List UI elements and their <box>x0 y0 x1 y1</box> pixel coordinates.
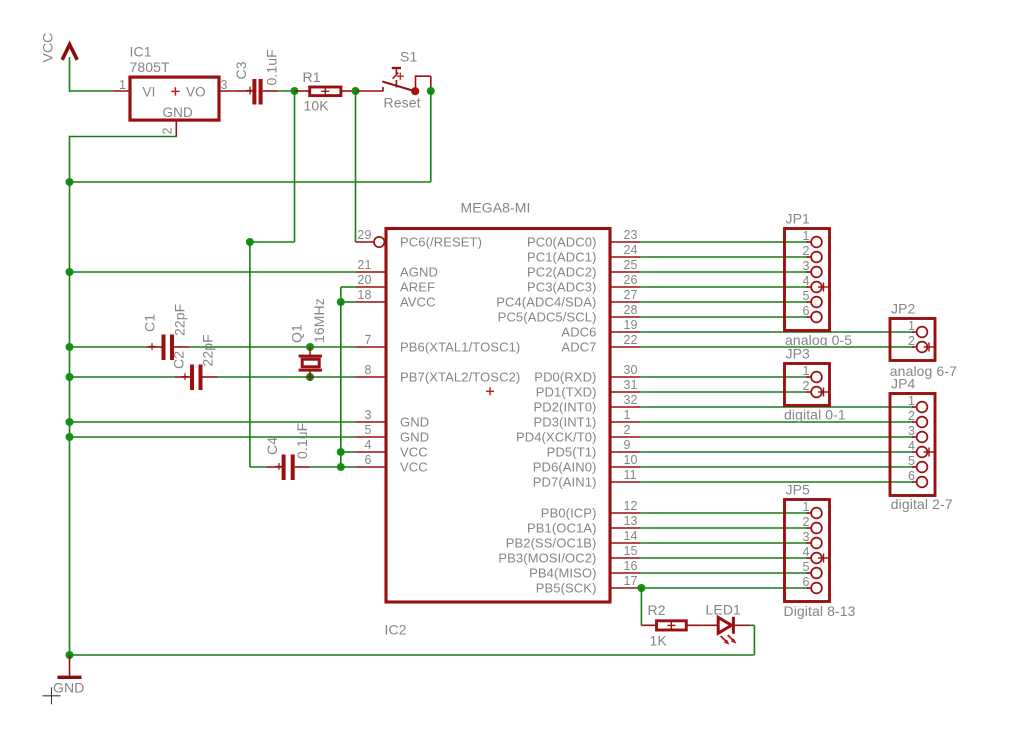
R2 origin cross <box>667 621 675 629</box>
JP5 pin 1 stub <box>807 512 812 514</box>
pin number 3 (IC2 left) <box>364 408 371 422</box>
JP2 origin cross <box>924 343 935 352</box>
pin number 8 (IC2 left) <box>364 363 371 377</box>
JP1 pin 2 stub <box>807 256 812 258</box>
JP1 pin 1 circle <box>811 237 822 248</box>
svg-text:31: 31 <box>624 378 638 392</box>
svg-text:1: 1 <box>802 500 809 514</box>
IC2 pin 7 stub <box>356 346 387 348</box>
IC2 pin 27 stub <box>610 301 640 303</box>
svg-text:9: 9 <box>624 438 631 452</box>
node R1/S1 junction <box>352 87 360 95</box>
node GND rail junction <box>66 651 74 659</box>
svg-text:6: 6 <box>364 453 371 467</box>
svg-text:ADC7: ADC7 <box>561 340 596 355</box>
capacitor C3 <box>252 79 262 105</box>
wire C4 to AVCC vertical <box>310 466 341 468</box>
IC2 pin 9 stub <box>610 451 640 453</box>
IC1 text VO <box>186 84 206 99</box>
JP4 pin number 5 <box>908 454 915 468</box>
svg-text:PB2(SS/OC1B): PB2(SS/OC1B) <box>506 536 597 551</box>
pin number 12 (IC2 right) <box>624 499 638 513</box>
C4 pin right <box>295 466 310 468</box>
wire C2 to crystal/PB7 <box>218 376 356 378</box>
svg-text:VCC: VCC <box>400 445 428 460</box>
IC2 pin 21 stub <box>356 271 387 273</box>
pin number 21 (IC2 left) <box>357 258 371 272</box>
IC2 pin 30 stub <box>610 376 640 378</box>
IC2 pin 31 stub <box>610 391 640 393</box>
IC1 pin 1 stub <box>114 90 131 92</box>
wire to JP4 <box>640 421 914 423</box>
IC2 pin 4 stub <box>356 451 387 453</box>
IC2 pin name PB5(SCK) <box>536 581 597 596</box>
svg-text:AREF: AREF <box>400 280 435 295</box>
svg-text:JP4: JP4 <box>891 376 916 392</box>
wire C3 to R1 <box>278 90 295 92</box>
label R2 <box>648 602 666 618</box>
IC2 pin name PD4(XCK/T0) <box>516 430 597 445</box>
svg-text:5: 5 <box>908 454 915 468</box>
IC2 pin name VCC <box>400 445 428 460</box>
IC2 pin name AVCC <box>400 295 436 310</box>
IC2 pin name PD1(TXD) <box>536 385 597 400</box>
JP5 pin number 3 <box>802 530 809 544</box>
JP5 pin 5 stub <box>807 572 812 574</box>
wire to JP5 <box>640 572 808 574</box>
svg-text:6: 6 <box>802 575 809 589</box>
JP1 pin 6 circle <box>811 312 822 323</box>
svg-text:PD1(TXD): PD1(TXD) <box>536 385 597 400</box>
IC2 pin 23 stub <box>610 241 640 243</box>
svg-text:16: 16 <box>624 559 638 573</box>
wire VCC rail horizontal <box>70 181 431 183</box>
JP3 pin 1 stub <box>807 376 812 378</box>
JP5 pin 5 circle <box>811 568 822 579</box>
wire ADC6 to JP2 pin1 <box>640 331 914 333</box>
label Reset <box>384 95 421 111</box>
IC2 pin 32 stub <box>610 406 640 408</box>
label IC1 <box>130 43 152 59</box>
value analog 6-7 (JP2) <box>890 363 957 379</box>
IC2 pin name PC3(ADC3) <box>527 280 597 295</box>
pin number 4 (IC2 left) <box>364 438 371 452</box>
crystal Q1 <box>299 355 322 372</box>
connector JP5 box <box>785 500 830 602</box>
JP4 pin 1 stub <box>912 406 917 408</box>
svg-text:1: 1 <box>802 229 809 243</box>
LED D1 cathode bar <box>732 617 735 634</box>
node C2-rail junction <box>66 373 74 381</box>
C4 origin cross <box>276 463 283 470</box>
value 22pF (C2) <box>200 334 216 366</box>
JP5 pin 4 stub <box>807 557 812 559</box>
svg-text:1K: 1K <box>650 632 668 648</box>
JP5 pin number 4 <box>802 545 809 559</box>
wire GND pin3 row <box>70 421 356 423</box>
svg-text:23: 23 <box>624 228 638 242</box>
IC2 pin 29 stub <box>356 237 385 247</box>
node PB5/R2 junction <box>637 584 645 592</box>
wire C1 to crystal/PB6 <box>189 346 356 348</box>
JP5 pin 2 circle <box>811 523 822 534</box>
JP1 pin number 4 <box>802 274 809 288</box>
node crystal bottom junction <box>306 373 314 381</box>
JP1 pin number 5 <box>802 289 809 303</box>
value 10K (R1) <box>304 98 330 114</box>
JP5 pin number 2 <box>802 515 809 529</box>
pin number 17 (IC2 right) <box>624 574 638 588</box>
JP1 pin 4 stub <box>807 286 812 288</box>
JP5 pin 4 circle <box>811 553 822 564</box>
wire to JP1 <box>640 241 808 243</box>
node AREF/AVCC junction <box>337 298 345 306</box>
IC1 pin 3 stub <box>219 90 237 92</box>
wire AREF vertical <box>340 287 342 302</box>
IC2 pin name PD0(RXD) <box>534 370 596 385</box>
label VCC <box>40 33 56 63</box>
S1 right bracket <box>415 76 431 91</box>
S1 fixed contact hook <box>382 87 384 92</box>
JP2 pin 2 circle <box>917 342 928 353</box>
wire to JP4 <box>640 466 914 468</box>
svg-text:JP1: JP1 <box>786 211 811 227</box>
pin number 16 (IC2 right) <box>624 559 638 573</box>
wire AGND row <box>70 271 356 273</box>
svg-text:JP2: JP2 <box>891 301 916 317</box>
IC2 pin name GND <box>400 415 429 430</box>
JP5 pin 1 circle <box>811 508 822 519</box>
value digital 2-7 (JP4) <box>891 496 953 512</box>
svg-text:3: 3 <box>908 424 915 438</box>
svg-text:14: 14 <box>624 529 638 543</box>
label C3 <box>233 61 249 79</box>
svg-text:VO: VO <box>186 84 206 99</box>
svg-text:11: 11 <box>624 468 637 482</box>
svg-text:R2: R2 <box>648 602 666 618</box>
JP1 pin number 3 <box>802 259 809 273</box>
JP5 pin 3 stub <box>807 542 812 544</box>
JP5 pin number 6 <box>802 575 809 589</box>
svg-text:Reset: Reset <box>384 95 421 111</box>
svg-text:PB1(OC1A): PB1(OC1A) <box>527 521 597 536</box>
S1 actuator slash <box>393 73 399 79</box>
wire to JP1 <box>640 316 808 318</box>
svg-text:10: 10 <box>624 453 638 467</box>
svg-text:29: 29 <box>357 228 371 242</box>
voltage regulator IC1 box <box>130 77 219 120</box>
pin number 9 (IC2 right) <box>624 438 631 452</box>
svg-text:2: 2 <box>908 334 915 348</box>
svg-text:1: 1 <box>802 364 809 378</box>
wire VCC pin4 row <box>341 451 356 453</box>
svg-text:PD2(INT0): PD2(INT0) <box>533 400 596 415</box>
wire rail to C2 <box>70 376 176 378</box>
IC2 pin name PD6(AIN0) <box>533 460 597 475</box>
wire rail to C1 <box>70 346 147 348</box>
S1 origin cross <box>397 73 404 80</box>
supply symbol VCC arrow <box>62 45 77 60</box>
JP4 pin number 6 <box>908 469 915 483</box>
LED1 anode pin <box>702 624 718 626</box>
IC2 pin 3 stub <box>356 421 387 423</box>
svg-text:LED1: LED1 <box>706 602 742 618</box>
label C4 <box>264 437 280 455</box>
wire left rail upper <box>69 136 71 182</box>
svg-text:GND: GND <box>53 680 84 696</box>
label JP4 <box>891 376 916 392</box>
IC2 box MEGA8-MI <box>386 229 610 603</box>
JP5 pin 2 stub <box>807 527 812 529</box>
JP4 pin 4 circle <box>917 447 928 458</box>
svg-text:17: 17 <box>624 574 638 588</box>
IC2 pin 13 stub <box>610 527 640 529</box>
pin number 10 (IC2 right) <box>624 453 638 467</box>
svg-text:PB6(XTAL1/TOSC1): PB6(XTAL1/TOSC1) <box>400 340 520 355</box>
JP5 pin number 1 <box>802 500 809 514</box>
svg-text:PC2(ADC2): PC2(ADC2) <box>527 265 597 280</box>
wire center vertical to C4 <box>250 465 267 468</box>
JP2 pin 1 stub <box>912 331 917 333</box>
label C2 <box>171 351 187 369</box>
S1 pin left stub <box>357 90 384 92</box>
IC2 pin 1 stub <box>610 421 640 423</box>
LED D1 triangle <box>718 617 731 633</box>
JP5 pin number 5 <box>802 560 809 574</box>
svg-text:7: 7 <box>364 333 371 347</box>
wire AVCC row <box>341 301 356 303</box>
svg-text:3: 3 <box>802 259 809 273</box>
IC2 pin name PB2(SS/OC1B) <box>506 536 597 551</box>
IC2 pin name PC1(ADC1) <box>527 250 597 265</box>
JP4 pin number 2 <box>908 409 915 423</box>
JP4 origin cross <box>924 448 935 457</box>
JP4 pin 6 circle <box>917 477 928 488</box>
JP1 pin 6 stub <box>807 316 812 318</box>
wire to JP1 <box>640 301 808 303</box>
capacitor C4 <box>282 455 295 481</box>
wire to JP4 <box>640 436 914 438</box>
label IC2 <box>385 622 407 638</box>
capacitor C2 <box>190 365 203 391</box>
value Digital 8-13 (JP5) <box>784 603 856 619</box>
svg-text:VCC: VCC <box>40 33 56 63</box>
svg-text:IC1: IC1 <box>130 43 152 59</box>
label JP1 <box>786 211 811 227</box>
svg-text:digital 0-1: digital 0-1 <box>784 407 846 423</box>
C2 pin left <box>175 376 190 378</box>
C3 pin right <box>263 90 278 92</box>
JP4 pin 4 stub <box>912 451 917 453</box>
IC2 pin 28 stub <box>610 316 640 318</box>
JP2 pin 1 circle <box>917 327 928 338</box>
node VCC rail junction <box>66 178 74 186</box>
IC2 pin name AGND <box>400 265 438 280</box>
JP4 pin 3 circle <box>917 432 928 443</box>
C4 pin left <box>267 466 282 468</box>
pin number 7 (IC2 left) <box>364 333 371 347</box>
svg-text:19: 19 <box>624 318 638 332</box>
svg-text:JP5: JP5 <box>786 482 811 498</box>
svg-text:GND: GND <box>400 415 429 430</box>
svg-text:MEGA8-MI: MEGA8-MI <box>461 199 531 215</box>
JP1 pin number 2 <box>802 244 809 258</box>
svg-text:4: 4 <box>908 439 915 453</box>
JP4 pin number 1 <box>908 394 915 408</box>
IC2 pin 10 stub <box>610 466 640 468</box>
svg-text:0.1uF: 0.1uF <box>294 423 310 459</box>
JP5 pin 6 circle <box>811 583 822 594</box>
node GND5-rail junction <box>66 433 74 441</box>
label Q1 <box>289 324 305 343</box>
pin number 20 (IC2 left) <box>357 273 371 287</box>
pin number 3 (IC1) <box>220 78 227 92</box>
svg-text:PC0(ADC0): PC0(ADC0) <box>527 235 597 250</box>
connector JP2 box <box>890 319 935 361</box>
JP3 pin number 1 <box>802 364 809 378</box>
node S1 right junction <box>427 87 435 95</box>
svg-text:2: 2 <box>161 127 175 134</box>
IC2 pin 2 stub <box>610 436 640 438</box>
IC2 pin name PB7(XTAL2/TOSC2) <box>400 370 520 385</box>
svg-text:PC4(ADC4/SDA): PC4(ADC4/SDA) <box>496 295 596 310</box>
wire IC1 pin2 to left <box>70 136 178 138</box>
IC2 pin 22 stub <box>610 346 640 348</box>
svg-text:PB7(XTAL2/TOSC2): PB7(XTAL2/TOSC2) <box>400 370 520 385</box>
svg-text:PD3(INT1): PD3(INT1) <box>533 415 596 430</box>
wire R1-left vertical <box>294 91 296 242</box>
R1 origin cross <box>321 87 329 95</box>
IC2 pin name ADC6 <box>561 325 596 340</box>
value 22pF (C1) <box>172 304 188 336</box>
pin number 15 (IC2 right) <box>624 544 638 558</box>
IC2 pin 24 stub <box>610 256 640 258</box>
wire to JP3 <box>640 376 808 378</box>
svg-text:4: 4 <box>802 545 809 559</box>
IC2 pin name PD5(T1) <box>547 445 597 460</box>
svg-text:GND: GND <box>400 430 429 445</box>
wire PB5 to JP5 pin6 <box>641 587 808 589</box>
svg-text:30: 30 <box>624 363 638 377</box>
svg-text:0.1uF: 0.1uF <box>264 49 280 85</box>
svg-text:2: 2 <box>802 244 809 258</box>
svg-text:AGND: AGND <box>400 265 438 280</box>
C2 pin right <box>203 376 218 378</box>
pin number 24 (IC2 right) <box>624 243 638 257</box>
svg-text:5: 5 <box>802 289 809 303</box>
svg-text:15: 15 <box>624 544 638 558</box>
IC2 pin 26 stub <box>610 286 640 288</box>
IC2 pin 8 stub <box>356 376 387 378</box>
JP1 pin 1 stub <box>807 241 812 243</box>
JP1 pin 4 circle <box>811 282 822 293</box>
svg-text:6: 6 <box>908 469 915 483</box>
JP1 pin 5 stub <box>807 301 812 303</box>
JP5 origin cross <box>818 554 829 563</box>
pin number 5 (IC2 left) <box>364 423 371 437</box>
pin number 13 (IC2 right) <box>624 514 638 528</box>
S1 throw arm <box>382 82 415 92</box>
pin number 25 (IC2 right) <box>624 258 638 272</box>
IC2 pin name GND <box>400 430 429 445</box>
pin number 22 (IC2 right) <box>624 333 638 347</box>
S1 actuator stem <box>395 68 397 88</box>
value 7805T <box>130 59 171 75</box>
C2 origin cross <box>182 373 189 380</box>
IC1 text GND <box>163 105 193 120</box>
wire to JP4 <box>640 481 914 483</box>
value 16MHz (Q1) <box>311 298 327 343</box>
IC2 pin 15 stub <box>610 557 640 559</box>
svg-text:C1: C1 <box>142 314 158 332</box>
JP4 pin 6 stub <box>912 481 917 483</box>
svg-text:C2: C2 <box>171 351 187 369</box>
node C1-rail junction <box>66 343 74 351</box>
wire to JP1 <box>640 256 808 258</box>
svg-text:ADC6: ADC6 <box>561 325 596 340</box>
node VCC pin4 junction <box>337 448 345 456</box>
svg-text:1: 1 <box>908 319 915 333</box>
JP1 origin cross <box>818 283 829 292</box>
pin number 1 (IC1) <box>119 78 126 92</box>
value digital 0-1 (JP3) <box>784 407 846 423</box>
label JP2 <box>891 301 916 317</box>
IC2 pin name AREF <box>400 280 435 295</box>
S1 actuator bar <box>392 67 401 69</box>
svg-text:2: 2 <box>908 409 915 423</box>
R2 pin right <box>686 624 702 626</box>
node AGND-rail junction <box>66 268 74 276</box>
svg-text:AVCC: AVCC <box>400 295 436 310</box>
JP4 pin number 4 <box>908 439 915 453</box>
svg-text:JP3: JP3 <box>786 346 811 362</box>
R2 pin left <box>641 624 656 626</box>
svg-text:21: 21 <box>357 258 371 272</box>
JP4 pin 1 circle <box>917 402 928 413</box>
S1 contact dot <box>411 87 419 95</box>
svg-text:PD6(AIN0): PD6(AIN0) <box>533 460 597 475</box>
IC2 pin name PB3(MOSI/OC2) <box>498 551 596 566</box>
wire R1-right vertical to pin29 <box>355 91 357 242</box>
value 0.1uF (C3) <box>264 49 280 85</box>
pin number 14 (IC2 right) <box>624 529 638 543</box>
IC2 pin 14 stub <box>610 542 640 544</box>
svg-text:28: 28 <box>624 303 638 317</box>
IC2 pin name PC6(/RESET) <box>400 235 482 250</box>
JP4 pin 2 stub <box>912 421 917 423</box>
C3 pin left <box>237 90 253 92</box>
IC2 pin name PB4(MISO) <box>529 566 596 581</box>
pin number 23 (IC2 right) <box>624 228 638 242</box>
connector JP1 box <box>785 229 830 331</box>
wire R1-left horizontal to node <box>250 241 295 243</box>
pin number 19 (IC2 right) <box>624 318 638 332</box>
IC2 pin name PC5(ADC5/SCL) <box>498 310 597 325</box>
svg-text:20: 20 <box>357 273 371 287</box>
svg-text:4: 4 <box>364 438 371 452</box>
IC2 pin 18 stub <box>356 301 387 303</box>
svg-text:C3: C3 <box>233 61 249 79</box>
wire LED to bottom rail corner <box>750 625 755 655</box>
wire VCC arrow to corner <box>69 57 71 92</box>
wire R2 vertical <box>640 588 642 625</box>
JP4 pin 5 stub <box>912 466 917 468</box>
svg-text:VCC: VCC <box>400 460 428 475</box>
LED emission arrow 2 <box>728 635 737 644</box>
sheet origin cross <box>43 687 61 704</box>
IC2 pin name PC4(ADC4/SDA) <box>496 295 596 310</box>
wire to JP4 <box>640 451 914 453</box>
